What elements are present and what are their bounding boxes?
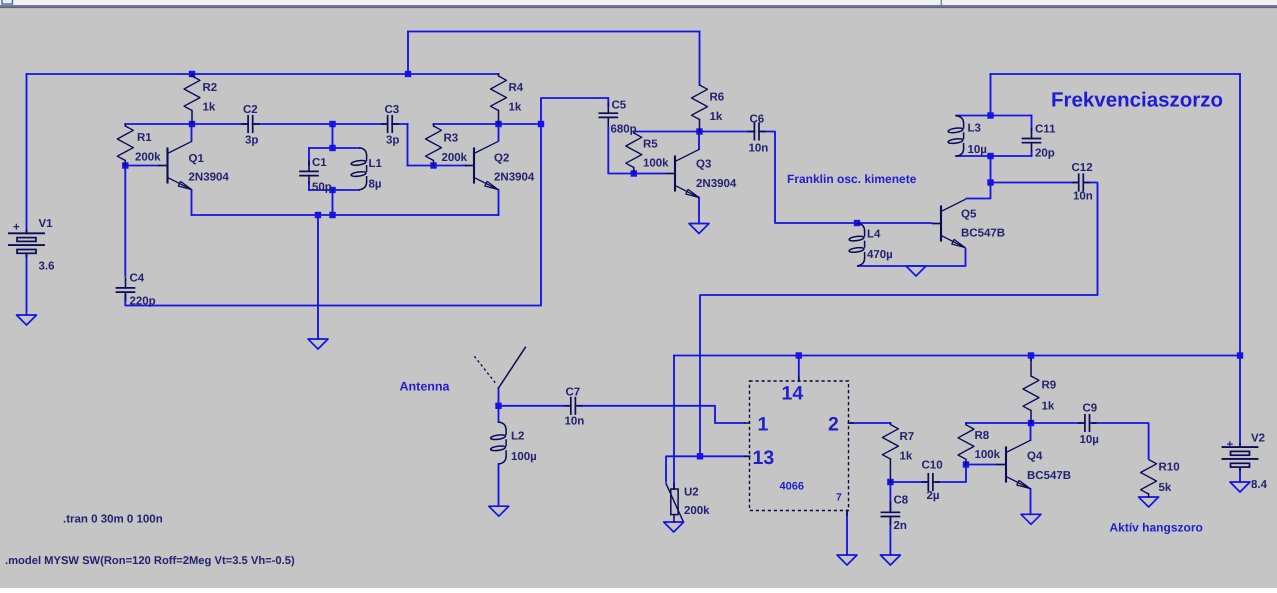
svg-text:.model MYSW SW(Ron=120 Roff=2M: .model MYSW SW(Ron=120 Roff=2Meg Vt=3.5 … (5, 555, 295, 567)
svg-text:L1: L1 (369, 158, 383, 170)
svg-text:Franklin osc. kimenete: Franklin osc. kimenete (787, 172, 917, 186)
pin stub 14 (798, 377, 800, 382)
wire pin2 (849, 422, 891, 424)
svg-text:4066: 4066 (780, 481, 804, 493)
ground Q5 (906, 266, 926, 276)
svg-text:1k: 1k (710, 111, 723, 123)
resistor R5 (633, 132, 635, 134)
ground L2 (489, 506, 509, 516)
toolbar separator (941, 0, 943, 5)
switch U2 bottom stub (673, 515, 675, 522)
ground C8 (880, 555, 900, 565)
capacitor C3 (387, 116, 389, 132)
svg-text:2n: 2n (894, 520, 907, 532)
inductor L1 (359, 148, 367, 156)
node (332.5,124) (329, 121, 335, 127)
wire C7 to pin1 (578, 406, 745, 423)
wire antenna to C7 (499, 405, 569, 407)
svg-text:13: 13 (753, 447, 775, 469)
svg-text:R1: R1 (137, 132, 152, 144)
chrome line blue (0, 5, 1277, 7)
svg-text:10n: 10n (1073, 191, 1093, 203)
pin stub 2 (849, 422, 854, 424)
svg-text:Q1: Q1 (189, 153, 205, 165)
switch U2 body (671, 489, 678, 515)
wire C3 drop (407, 124, 409, 166)
svg-text:C7: C7 (566, 387, 581, 399)
wire tank2 feed (990, 74, 992, 116)
node (332.5,215) (329, 212, 335, 218)
wire R5 top rail (634, 131, 755, 133)
svg-text:2µ: 2µ (927, 490, 940, 502)
wire Q1 base (125, 165, 159, 167)
svg-text:2N3904: 2N3904 (189, 172, 230, 184)
node (990.5,115.5) (987, 112, 993, 118)
svg-text:1k: 1k (1042, 401, 1055, 413)
window chrome strip (0, 0, 1277, 5)
wire C12 in (991, 182, 1078, 184)
wire tank1 down (332, 190, 334, 215)
wire tank2 top (956, 115, 1032, 117)
svg-text:+: + (13, 222, 20, 234)
capacitor C9 (1084, 415, 1086, 431)
node (1031,423) (1028, 420, 1034, 426)
ground tank1 (308, 339, 328, 349)
svg-text:470µ: 470µ (867, 249, 893, 261)
svg-text:200k: 200k (442, 152, 468, 164)
wire Q4 emitter (1030, 489, 1032, 514)
svg-text:V1: V1 (39, 218, 54, 230)
node (990.5,182.5) (987, 179, 993, 185)
inductor L2 (499, 422, 507, 430)
wire upper rail y=31.5 (408, 31, 700, 33)
svg-text:Q4: Q4 (1027, 451, 1043, 463)
resistor R4 (498, 74, 500, 76)
svg-text:10n: 10n (749, 143, 769, 155)
ground U2 (664, 522, 684, 532)
svg-text:R3: R3 (444, 133, 459, 145)
node (192,74) (189, 71, 195, 77)
svg-text:10µ: 10µ (968, 144, 987, 156)
ground Q4 (1021, 514, 1041, 524)
wire R1-C4 (124, 166, 126, 277)
wire pin7 (846, 511, 848, 556)
svg-text:220p: 220p (130, 296, 156, 308)
svg-text:Frekvenciaszorzo: Frekvenciaszorzo (1051, 89, 1223, 112)
svg-text:20p: 20p (1035, 148, 1055, 160)
battery V1 (26, 230, 28, 233)
svg-text:14: 14 (782, 383, 804, 405)
node (192,124) (189, 121, 195, 127)
wire V2 to ground (1239, 468, 1241, 483)
node (125.3,165.5) (122, 162, 128, 168)
node (890.4,482) (887, 479, 893, 485)
toolbar icon (2, 0, 13, 4)
wire C6 out (759, 132, 932, 224)
node (408,74) (405, 71, 411, 77)
wire pin14 (798, 356, 800, 382)
resistor R6 (692, 85, 708, 120)
svg-text:C9: C9 (1083, 403, 1098, 415)
wire Q4 base (966, 464, 998, 466)
svg-text:C8: C8 (894, 495, 909, 507)
svg-text:L2: L2 (511, 431, 524, 443)
node (633.8,173.5) (631, 170, 637, 176)
capacitor C1 (300, 170, 318, 172)
svg-text:50p: 50p (312, 182, 332, 194)
wire tank1 bottom (309, 189, 359, 191)
capacitor C4 (117, 287, 135, 289)
svg-text:Q3: Q3 (696, 159, 711, 171)
inductor L4 (857, 223, 865, 231)
svg-text:U2: U2 (684, 487, 699, 499)
ground R10 (1139, 497, 1159, 507)
wire Q4 collector (1030, 423, 1032, 440)
svg-text:7: 7 (836, 492, 842, 504)
svg-text:V2: V2 (1251, 433, 1265, 445)
transistor Q1 (166, 149, 168, 183)
node (990.5,156) (987, 153, 993, 159)
wire C10 out (935, 465, 966, 483)
capacitor C10 (927, 474, 929, 490)
wire C11 top link (1031, 116, 1033, 131)
ground V2 (1230, 482, 1250, 492)
wire C5 top stub (607, 98, 609, 105)
svg-text:100k: 100k (643, 158, 669, 170)
transistor Q2 (473, 149, 475, 183)
node (700,456.3) (697, 453, 703, 459)
transistor Q5 (940, 207, 942, 241)
resistor R10 (1141, 460, 1157, 495)
wire Q1 collector (191, 124, 193, 141)
capacitor C11 (1023, 138, 1041, 140)
transistor Q3 (674, 157, 676, 191)
svg-text:+: + (1227, 439, 1234, 451)
node (966,464.5) (963, 461, 969, 467)
pin stub 1 (745, 422, 750, 424)
switch U2 blade (666, 484, 683, 521)
wire tank2 bottom (956, 155, 1032, 157)
node (699.5,131.5) (696, 128, 702, 134)
wire tank1 left-top (308, 148, 310, 165)
wire base bus y=124 (125, 123, 248, 125)
wire Q2 emitter (498, 190, 500, 215)
svg-text:R9: R9 (1042, 380, 1057, 392)
wire C9 out (1092, 423, 1149, 460)
svg-text:BC547B: BC547B (1027, 470, 1071, 482)
wire Q3 emitter (698, 198, 700, 224)
wire tank1 feed (332, 124, 334, 148)
ground Q3 (689, 224, 709, 234)
svg-text:680p: 680p (611, 124, 637, 136)
svg-text:R2: R2 (203, 82, 218, 94)
capacitor C6 (753, 123, 755, 139)
svg-text:C2: C2 (243, 104, 258, 116)
wire R9 stub (1030, 356, 1032, 361)
svg-text:200k: 200k (135, 152, 161, 164)
svg-text:Antenna: Antenna (400, 380, 451, 394)
capacitor C8 (881, 511, 899, 513)
wire drop R6 top (699, 32, 701, 86)
IC U1 4066 box (750, 381, 849, 511)
svg-text:8µ: 8µ (369, 179, 382, 191)
svg-text:1: 1 (758, 414, 769, 436)
svg-text:C10: C10 (922, 460, 943, 472)
resistor R7 (889, 423, 891, 425)
antenna dashed arm (474, 355, 496, 383)
svg-text:C11: C11 (1035, 124, 1056, 136)
wire antenna stub (498, 388, 500, 422)
svg-text:L4: L4 (867, 229, 881, 241)
wire C10 row (890, 481, 926, 483)
node (318,215) (315, 212, 321, 218)
svg-text:Q5: Q5 (961, 209, 977, 221)
wire tank1 left-bot (308, 182, 310, 190)
wire top rail y=74 (27, 73, 499, 75)
node (332.5,148) (329, 145, 335, 151)
wire supply rail y=355.5 (674, 355, 1240, 357)
wire top rail right (991, 73, 1241, 75)
chrome line dark (0, 7, 1277, 9)
resistor R1 (124, 124, 126, 126)
wire y=124 after C3 (392, 123, 407, 125)
svg-text:100µ: 100µ (511, 451, 537, 463)
svg-text:1k: 1k (203, 102, 216, 114)
wire Q1 emitter (191, 190, 193, 215)
wire C8 down (889, 482, 891, 510)
pin stub 13 (745, 455, 750, 457)
svg-text:.tran 0 30m 0 100n: .tran 0 30m 0 100n (63, 514, 163, 526)
svg-text:R4: R4 (509, 82, 524, 94)
antenna mast (499, 347, 526, 388)
wire Q2 base (408, 165, 467, 167)
wire Q2 collector (498, 124, 500, 141)
svg-text:R5: R5 (643, 139, 658, 151)
capacitor C7 (570, 398, 572, 414)
svg-text:R7: R7 (900, 431, 915, 443)
svg-text:C1: C1 (312, 157, 327, 169)
wire tank1 top (309, 147, 359, 149)
ground pin7 (837, 555, 857, 565)
wire C11 bottom link (1031, 151, 1033, 156)
wire ground branch x=318 (317, 215, 319, 339)
wire pin13 left branch (666, 456, 700, 482)
node (433.5,165.5) (430, 162, 436, 168)
svg-text:C6: C6 (750, 114, 765, 126)
svg-text:Q2: Q2 (494, 153, 509, 165)
svg-text:2N3904: 2N3904 (494, 172, 535, 184)
wire right edge drop (1239, 74, 1241, 444)
svg-text:5k: 5k (1159, 482, 1172, 494)
node (541,124) (538, 121, 544, 127)
wire C12 out loop (700, 183, 1098, 457)
battery V2 (1239, 444, 1241, 447)
resistor R2 (191, 74, 193, 76)
svg-text:10µ: 10µ (1080, 434, 1099, 446)
transistor Q4 (1005, 448, 1007, 482)
ground V1 (17, 315, 37, 325)
node (498.5,405.8) (495, 403, 501, 409)
switch U2 top stub (673, 484, 675, 490)
wire drop x=408 (407, 32, 409, 75)
wire feedback C4-Q2 (125, 98, 608, 306)
svg-text:L3: L3 (968, 123, 981, 135)
wire V1 top (26, 74, 28, 231)
node (332.5,190) (329, 187, 335, 193)
svg-text:3p: 3p (386, 135, 399, 147)
svg-text:2: 2 (828, 414, 839, 436)
capacitor C2 (247, 116, 249, 132)
svg-text:3.6: 3.6 (39, 261, 55, 273)
capacitor C5 (599, 112, 617, 114)
svg-text:BC547B: BC547B (961, 228, 1005, 240)
svg-text:C5: C5 (612, 100, 627, 112)
capacitor C12 (1078, 174, 1080, 190)
svg-text:8.4: 8.4 (1251, 479, 1268, 491)
svg-text:C3: C3 (385, 104, 400, 116)
svg-text:200k: 200k (684, 505, 710, 517)
wire emitter bus y=215 (192, 214, 499, 216)
wire y=124 C2-C3 (253, 123, 388, 125)
node (798.8,355.5) (796, 352, 802, 358)
resistor R3 (433, 124, 435, 126)
wire C8 to ground (889, 519, 891, 556)
wire pin13 (700, 455, 750, 457)
svg-text:C4: C4 (130, 273, 145, 285)
wire switch drop x=674 (673, 356, 675, 490)
wire C5 to base (608, 126, 666, 174)
resistor R9 (1023, 376, 1039, 411)
node (857,223) (854, 220, 860, 226)
wire Q5 emitter (857, 248, 966, 266)
svg-text:R6: R6 (710, 92, 725, 104)
wire R8 to node (966, 422, 1031, 424)
svg-text:10n: 10n (565, 416, 585, 428)
pin stub 7 (846, 511, 848, 516)
svg-text:C12: C12 (1072, 162, 1093, 174)
wire R3-R4 y=124 (434, 123, 542, 125)
wire Q5 collector (966, 183, 991, 199)
node (498.5,124) (495, 121, 501, 127)
svg-text:100k: 100k (975, 449, 1001, 461)
node (1240,355.5) (1237, 352, 1243, 358)
wire V1 bottom (26, 254, 28, 316)
wire tank2 down (990, 156, 992, 183)
node (1031,355.5) (1028, 352, 1034, 358)
svg-text:2N3904: 2N3904 (696, 178, 737, 190)
svg-text:Aktív hangszoro: Aktív hangszoro (1110, 521, 1203, 535)
wire C9 row (1031, 422, 1083, 424)
resistor R8 (965, 423, 967, 425)
svg-text:3p: 3p (245, 135, 258, 147)
svg-text:R8: R8 (975, 430, 990, 442)
svg-text:1k: 1k (509, 102, 522, 114)
wire Q3 collector (698, 132, 700, 150)
svg-text:R10: R10 (1159, 462, 1180, 474)
wire L2 to ground (498, 464, 500, 506)
svg-text:1k: 1k (900, 451, 913, 463)
inductor L3 (956, 116, 964, 124)
